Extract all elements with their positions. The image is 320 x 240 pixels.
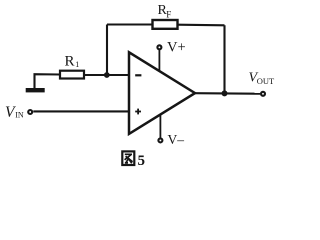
wire feedback-top	[107, 23, 153, 25]
op-amp U1	[129, 52, 195, 134]
svg-text:V+: V+	[167, 40, 186, 56]
node output-junction	[222, 90, 228, 96]
wire feedback-top-right-segment	[178, 24, 225, 27]
wire ground-to-R1	[35, 74, 61, 88]
svg-text:1: 1	[75, 60, 79, 69]
wire feedback-right-vertical	[223, 25, 225, 93]
ground	[26, 88, 45, 92]
terminal V-	[158, 115, 184, 148]
node inverting-junction	[104, 72, 110, 78]
resistor RF	[153, 3, 178, 29]
wire output	[195, 92, 260, 95]
wire VIN-to-noninverting-input	[33, 110, 129, 112]
svg-text:F: F	[166, 9, 171, 19]
svg-text:OUT: OUT	[257, 76, 275, 86]
wire R1-to-inverting-input	[84, 74, 129, 76]
svg-text:R: R	[65, 54, 75, 70]
svg-text:IN: IN	[15, 111, 24, 120]
terminal VOUT	[249, 71, 275, 96]
svg-text:V–: V–	[168, 132, 185, 147]
resistor R1	[60, 54, 84, 79]
terminal V+	[157, 40, 185, 72]
wire feedback-left-vertical	[106, 25, 108, 76]
terminal VIN	[5, 104, 32, 121]
caption 图5	[122, 151, 145, 169]
svg-text:5: 5	[138, 153, 146, 169]
